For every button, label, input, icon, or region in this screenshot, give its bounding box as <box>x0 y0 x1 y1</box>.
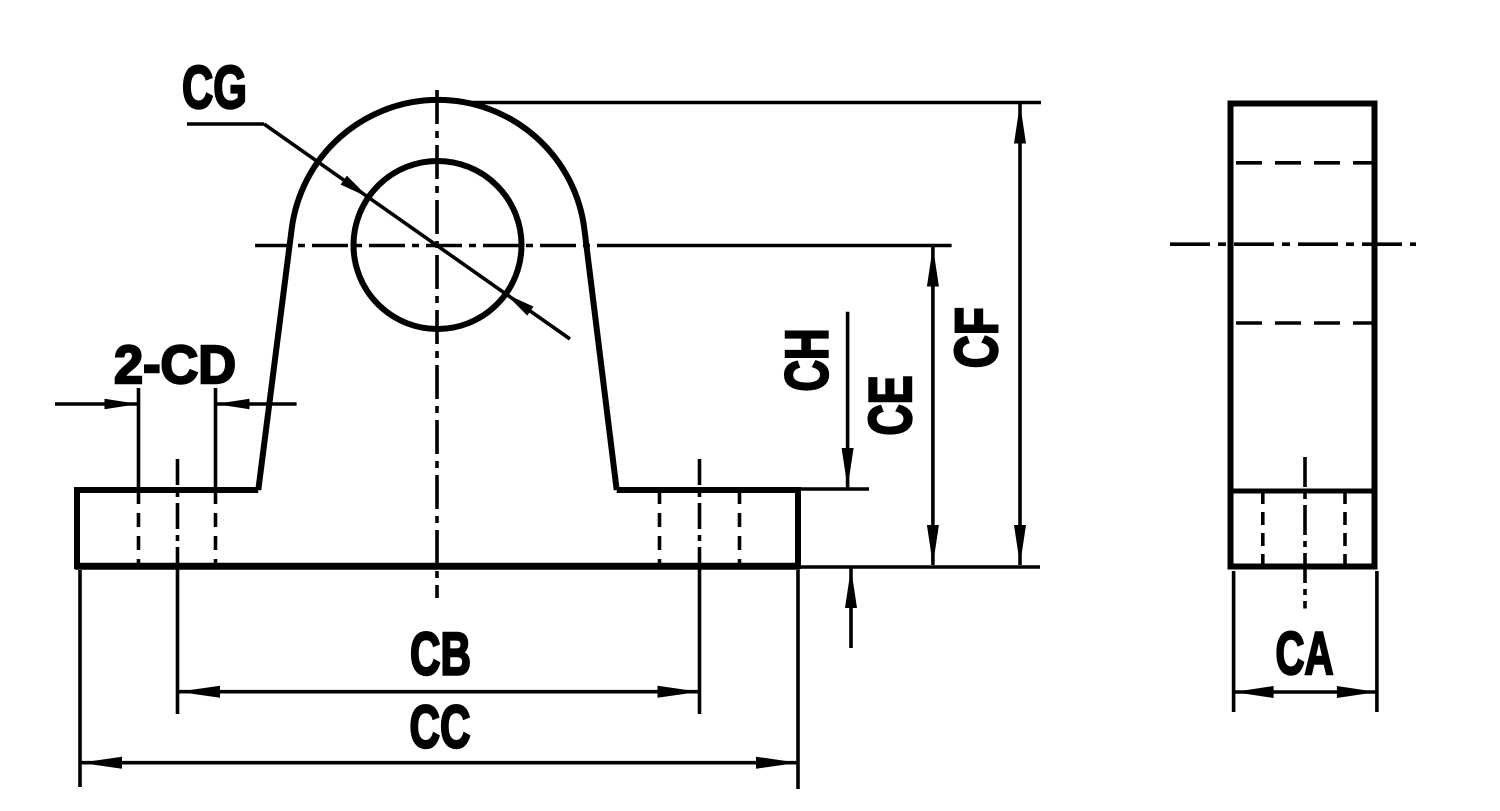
right base hole centerline extension for CB <box>698 566 702 714</box>
arrowhead CE top <box>927 247 939 287</box>
dimension CA extension right <box>1375 571 1379 712</box>
svg-text:CB: CB <box>410 621 471 688</box>
left base hole centerline <box>176 459 180 566</box>
arrowhead CB right <box>658 686 700 698</box>
arrowhead CB left <box>178 686 220 698</box>
CG leader diagonal <box>264 124 570 339</box>
dimension 2-CD line right segment <box>216 402 297 406</box>
arrowhead 2-CD right <box>216 399 250 409</box>
dimension CA extension left <box>1232 571 1236 712</box>
base top extension line (CH) <box>797 487 869 491</box>
side view hole hidden edge left <box>1261 491 1265 566</box>
side view rectangle outline <box>1231 104 1375 567</box>
svg-text:CG: CG <box>182 54 247 121</box>
right base hole centerline <box>698 459 702 566</box>
arrowhead CA left <box>1234 686 1274 698</box>
arrowhead CF bottom <box>1014 525 1026 565</box>
arrowhead CA right <box>1337 686 1377 698</box>
side view hole vertical centerline <box>1303 457 1307 609</box>
arrowhead CG upper <box>341 176 369 198</box>
bore horizontal centerline / CE extension <box>255 244 600 248</box>
dimension CB line <box>178 690 700 694</box>
bore hole circle <box>354 161 522 329</box>
side view hole hidden edge right <box>1343 491 1347 566</box>
side view base top edge <box>1231 489 1375 494</box>
dimension 2-CD extension line right <box>214 388 218 490</box>
arrowhead CE bottom <box>927 525 939 565</box>
arrowhead CC right <box>756 757 798 769</box>
CG leader horizontal segment <box>187 122 264 126</box>
dimension 2-CD line left segment <box>55 402 139 406</box>
front view body outline (arc boss with tangent sides) <box>258 100 616 490</box>
right base hole hidden edge 2 <box>738 490 742 566</box>
svg-text:2-CD: 2-CD <box>114 335 236 395</box>
dimension CF line <box>1018 104 1022 566</box>
dimension CC line <box>80 761 798 765</box>
front view base plate outline <box>77 490 798 566</box>
arrowhead CH down <box>842 448 854 488</box>
dimension CE line <box>931 247 935 566</box>
dimension CC extension left <box>78 570 82 787</box>
side view horizontal centerline <box>1170 242 1416 246</box>
arrowhead CC left <box>80 757 122 769</box>
left base hole centerline extension for CB <box>176 566 180 714</box>
arrowhead CG lower <box>506 294 534 316</box>
svg-text:CC: CC <box>410 694 471 761</box>
arrowhead CF top <box>1014 104 1026 144</box>
side view bore hidden edge top <box>1236 161 1372 165</box>
right base hole hidden edge 1 <box>658 490 662 566</box>
base bottom extension line (CE CF) <box>797 565 1040 569</box>
arrowhead CH up <box>845 568 857 608</box>
side view bore hidden edge bottom <box>1236 321 1372 325</box>
svg-text:CF: CF <box>943 307 1010 368</box>
dimension CH lower line <box>849 568 853 648</box>
svg-text:CH: CH <box>774 329 841 392</box>
dimension CH upper line <box>846 312 850 488</box>
arrowhead 2-CD left <box>105 399 139 409</box>
left base hole hidden edge 2 <box>214 490 218 566</box>
svg-text:CA: CA <box>1276 620 1334 687</box>
svg-text:CE: CE <box>857 376 924 436</box>
dimension 2-CD extension line left <box>137 388 141 490</box>
top extension line (CF) <box>470 101 1041 105</box>
front view vertical centerline <box>435 90 439 598</box>
left base hole hidden edge 1 <box>137 490 141 566</box>
front view base bottom edge (heavy) <box>75 563 800 570</box>
dimension CA line <box>1234 690 1377 694</box>
dimension CC extension right <box>796 570 800 789</box>
